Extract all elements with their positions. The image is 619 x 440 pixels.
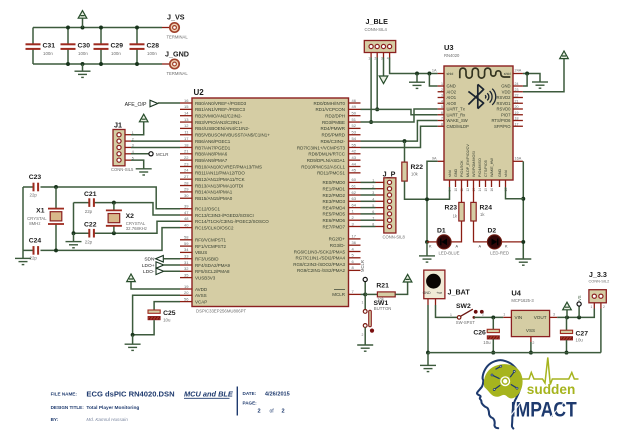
ground U3 24A: [532, 82, 548, 88]
wire bus to ground: [22, 250, 24, 258]
svg-text:1: 1: [591, 305, 593, 309]
U2 pin 2 RE6: [349, 219, 361, 221]
connector J_3.3 body: [589, 290, 606, 303]
svg-text:15: 15: [484, 188, 488, 192]
U2 pin 59 RF1: [180, 245, 192, 247]
svg-text:17: 17: [352, 234, 357, 239]
U2 pin 19 AVDD: [180, 288, 192, 290]
svg-text:27: 27: [184, 174, 189, 179]
U2 pin 62 RE2: [349, 194, 361, 196]
U2 pin 30 RB15: [180, 197, 192, 199]
J_BLE pin 2: [375, 44, 379, 48]
svg-text:U2: U2: [194, 88, 205, 97]
svg-text:43: 43: [352, 155, 357, 160]
junction: [426, 351, 430, 355]
U3 pin 3 AIO1: [438, 97, 444, 99]
svg-text:46: 46: [352, 98, 357, 103]
logo sudden IMPACT: [477, 358, 579, 429]
svg-text:18: 18: [184, 142, 189, 147]
U2 pin 32 RF5: [180, 270, 192, 272]
svg-text:RE6/PMD6: RE6/PMD6: [322, 218, 345, 223]
svg-text:VOUT: VOUT: [534, 315, 547, 320]
svg-text:33: 33: [184, 254, 189, 259]
junction: [375, 107, 379, 111]
svg-text:RN4020: RN4020: [444, 53, 460, 58]
wire J_3.3 pin2 down: [600, 309, 602, 353]
U2 pin 42 RD8: [349, 153, 361, 155]
junction: [66, 26, 70, 30]
svg-text:RC14/T1CK/C3IN1-/PGEC2/SOSCO: RC14/T1CK/C3IN1-/PGEC2/SOSCO: [195, 219, 269, 224]
svg-text:22p: 22p: [85, 209, 93, 214]
power flag +V top-left: [78, 11, 87, 19]
connector J_P body: [384, 178, 396, 233]
junction: [415, 72, 419, 76]
U3 pin 2 AIO2: [438, 91, 444, 93]
U3 pin 17 SFP/PIO: [513, 125, 523, 127]
svg-text:RF4/SDA2/PMA9: RF4/SDA2/PMA9: [195, 263, 231, 268]
svg-text:1: 1: [450, 313, 452, 317]
J_P pin 1: [387, 180, 391, 184]
svg-text:23: 23: [184, 161, 189, 166]
svg-text:C25: C25: [163, 310, 176, 317]
svg-text:61: 61: [352, 184, 357, 189]
junction: [521, 197, 525, 201]
svg-text:100n: 100n: [147, 51, 157, 56]
U2 pin 50 RD2: [349, 115, 361, 117]
wire X1 bottom rail: [23, 228, 180, 251]
svg-text:13: 13: [184, 117, 189, 122]
J_P pin 3: [387, 193, 391, 197]
svg-text:C21: C21: [84, 191, 97, 198]
U2 pin 55 RD7: [349, 146, 361, 148]
svg-text:100n: 100n: [111, 51, 121, 56]
U4 pin 1 VIN: [503, 316, 511, 318]
svg-text:RG3/D-: RG3/D-: [330, 243, 346, 248]
svg-text:PIO4/MISO: PIO4/MISO: [478, 158, 482, 177]
resistor R21: [377, 292, 395, 297]
svg-text:RB9/AN9/PMA7: RB9/AN9/PMA7: [195, 158, 228, 163]
svg-text:MCU and BLE: MCU and BLE: [184, 389, 234, 398]
svg-text:19: 19: [184, 284, 189, 289]
svg-text:24: 24: [184, 168, 189, 173]
U2 pin 31 RF4: [180, 264, 192, 266]
svg-text:10: 10: [454, 188, 458, 192]
svg-text:12: 12: [466, 188, 470, 192]
U2 pin 35 VUSB3V3: [180, 277, 192, 279]
junction: [72, 231, 76, 235]
title block: [51, 387, 290, 423]
U2 pin 45 RD11: [349, 172, 361, 174]
U2 pin 44 RD10: [349, 166, 361, 168]
U2 pin 27 RB12: [180, 178, 192, 180]
svg-text:RE4/PMD4: RE4/PMD4: [322, 205, 345, 210]
svg-text:VSS: VSS: [526, 328, 535, 333]
svg-text:C26: C26: [473, 330, 486, 337]
junction: [54, 185, 58, 189]
wire to U3 GND pin1: [429, 74, 437, 87]
capacitor C21: [89, 198, 94, 207]
svg-text:C24: C24: [29, 238, 42, 245]
J_3.3 pin 2: [599, 294, 603, 298]
svg-text:RB6/AN6/PGEC1: RB6/AN6/PGEC1: [195, 139, 231, 144]
U2 pin 28 RB13: [180, 185, 192, 187]
svg-text:LDO-: LDO-: [143, 269, 155, 275]
svg-text:9A: 9A: [432, 157, 437, 161]
U2 pin 17 RB6: [180, 140, 192, 142]
svg-text:30: 30: [184, 193, 189, 198]
connector J_BAT body: [424, 270, 445, 299]
J_P pin 8: [387, 224, 391, 228]
svg-text:48: 48: [184, 216, 189, 221]
ground D1: [419, 256, 435, 262]
svg-text:10u: 10u: [483, 340, 491, 345]
svg-text:2: 2: [532, 341, 534, 345]
U3 pin 16A side: [513, 160, 523, 162]
svg-text:19: 19: [515, 111, 519, 115]
svg-text:VIN: VIN: [515, 315, 523, 320]
svg-text:IMPACT: IMPACT: [511, 397, 577, 421]
svg-text:GND: GND: [423, 291, 431, 295]
wire C26 top: [492, 317, 494, 329]
U2 pin 16 RB0: [180, 102, 192, 104]
svg-text:RB12/AN12/PMA11/TCK: RB12/AN12/PMA11/TCK: [195, 177, 245, 182]
svg-text:GND: GND: [498, 168, 502, 177]
U2 pin 33 RF3: [180, 258, 192, 260]
U3 pin 21 RSVD1: [513, 102, 523, 104]
terminal J_GND: [170, 59, 179, 68]
svg-text:20: 20: [184, 290, 189, 295]
wire RE4 to J_P: [361, 207, 376, 209]
svg-text:2: 2: [603, 305, 605, 309]
svg-text:CMD/MLDP: CMD/MLDP: [447, 124, 470, 129]
svg-text:D1: D1: [437, 227, 446, 234]
svg-text:36: 36: [352, 240, 357, 245]
wire top rail VS: [33, 27, 162, 29]
svg-text:J_P: J_P: [383, 169, 396, 178]
svg-text:2: 2: [362, 333, 364, 337]
U3 pin 16 GND: [499, 180, 501, 187]
wire 24A to ground: [523, 74, 540, 83]
capacitor C30: [61, 44, 76, 49]
svg-text:LED-BLUE: LED-BLUE: [438, 251, 459, 256]
capacitor C25: [148, 310, 160, 313]
svg-text:FILE NAME:: FILE NAME:: [51, 391, 78, 396]
resistor R23: [461, 187, 463, 202]
svg-text:100n: 100n: [43, 51, 53, 56]
svg-text:14: 14: [478, 188, 482, 192]
svg-text:C23: C23: [29, 174, 42, 181]
U2 pin 64 RE4: [349, 207, 361, 209]
svg-text:C28: C28: [147, 43, 160, 50]
junction: [525, 72, 529, 76]
capacitor C31: [26, 44, 41, 49]
U2 pin 53 RD5: [349, 134, 361, 136]
capacitor C26: [487, 329, 499, 332]
wire J1 pin5 to ground: [131, 160, 144, 169]
U3 pin 12 MLDP_EV/PIO2/CV: [467, 180, 469, 187]
wire power stem: [566, 310, 568, 318]
wire left bus: [22, 187, 24, 250]
svg-text:VDD: VDD: [502, 89, 511, 94]
svg-text:sudden: sudden: [527, 382, 576, 397]
capacitor C23: [34, 183, 39, 192]
power flag VDD: [560, 51, 569, 59]
U2 pin 46 RD0: [349, 102, 361, 104]
U4 pin 3 VOUT: [550, 316, 558, 318]
svg-text:24: 24: [515, 82, 519, 86]
wire RD1 to UART_Rx: [361, 109, 438, 114]
svg-text:54: 54: [352, 136, 357, 141]
svg-text:6: 6: [441, 111, 443, 115]
U3 bluetooth logo: [468, 84, 495, 108]
svg-text:60: 60: [352, 177, 357, 182]
wire D2 cathode: [502, 241, 524, 243]
wire C27 bottom: [566, 340, 568, 353]
svg-text:VCAP: VCAP: [195, 299, 207, 304]
svg-text:C30: C30: [78, 43, 91, 50]
svg-text:RB5/VBUSON/VBUSST/AN5/C1IN1+: RB5/VBUSON/VBUSST/AN5/C1IN1+: [195, 133, 270, 138]
svg-text:CONN-SIL5: CONN-SIL5: [111, 167, 134, 172]
ground main rail: [420, 365, 436, 371]
svg-text:RD2/DPH: RD2/DPH: [325, 114, 345, 119]
wire AVDD to power: [131, 281, 180, 289]
wire pin16 GND to 16A chain: [506, 187, 524, 199]
wire MCLR up: [364, 282, 366, 295]
U3 pin 8 CMD/MLDP: [438, 125, 444, 127]
svg-text:17: 17: [184, 136, 189, 141]
svg-text:AIO0: AIO0: [447, 101, 457, 106]
svg-text:44: 44: [352, 161, 357, 166]
svg-text:64: 64: [352, 202, 357, 207]
svg-text:RB15/AN15/PMA0: RB15/AN15/PMA0: [195, 196, 233, 201]
svg-text:BUTTON: BUTTON: [374, 306, 392, 311]
svg-text:MCLR: MCLR: [156, 152, 168, 157]
svg-text:J_BLE: J_BLE: [366, 17, 389, 26]
wire R22 top: [404, 141, 406, 162]
svg-text:17: 17: [515, 122, 519, 126]
U3 pin 9 shld: [449, 180, 451, 187]
resistor R24: [473, 187, 475, 202]
J_P pin 5: [387, 206, 391, 210]
capacitor C29: [94, 44, 109, 49]
svg-text:10u: 10u: [163, 318, 171, 323]
svg-text:RD7/C3IN1+/VCMPST3: RD7/C3IN1+/VCMPST3: [297, 145, 346, 150]
svg-text:AIO2: AIO2: [447, 89, 457, 94]
svg-text:RTS/PIO6: RTS/PIO6: [491, 118, 511, 123]
wire C31 leads: [32, 28, 34, 45]
svg-text:28: 28: [184, 180, 189, 185]
junction: [99, 26, 103, 30]
svg-text:shld: shld: [447, 72, 454, 76]
svg-text:WAKE_HW: WAKE_HW: [490, 158, 494, 177]
svg-text:50: 50: [352, 111, 357, 116]
U2 pin 14 RB2: [180, 115, 192, 117]
U3 pin 23 VDD: [513, 91, 523, 93]
junction: [565, 351, 569, 355]
connector J_BLE body: [364, 41, 395, 53]
svg-text:29: 29: [184, 187, 189, 192]
svg-text:40: 40: [184, 222, 189, 227]
svg-text:CRYSTAL: CRYSTAL: [27, 216, 47, 221]
wire RD7 to CMD/MLDP: [361, 126, 438, 147]
junction: [425, 197, 429, 201]
svg-text:21: 21: [184, 149, 189, 154]
capacitor C27: [560, 330, 572, 333]
resistor R23: [459, 202, 464, 221]
ground C25: [125, 344, 141, 350]
crystal X2: [106, 210, 122, 225]
U2 pin 29 RB14: [180, 191, 192, 193]
wire RE3 to J_P: [361, 200, 376, 202]
U2 pin 56 VCAP: [180, 301, 192, 303]
wire power stem: [82, 18, 84, 27]
capacitor C28: [130, 44, 145, 49]
U2 pin 17 RG2: [349, 238, 361, 240]
svg-text:RC12/OSC1: RC12/OSC1: [195, 207, 221, 212]
U3 pin 18 RTS/PIO6: [513, 120, 523, 122]
power flag J1: [139, 114, 148, 122]
U3 pin 20 RSVD0: [513, 108, 523, 110]
U3 pin 24A shld: [513, 73, 523, 75]
U2 pin 22 RB9: [180, 159, 192, 161]
svg-text:1: 1: [503, 313, 505, 317]
svg-text:20: 20: [515, 105, 519, 109]
svg-text:1: 1: [368, 57, 370, 61]
U2 pin 18 RB7: [180, 146, 192, 148]
svg-text:32: 32: [184, 266, 189, 271]
wire J_BAT GND to rail: [427, 305, 429, 353]
svg-text:DATE:: DATE:: [243, 391, 257, 396]
svg-text:16: 16: [490, 188, 494, 192]
svg-text:42: 42: [352, 149, 357, 154]
U2 pin 24 RB11: [180, 172, 192, 174]
svg-text:MCLR: MCLR: [360, 260, 365, 272]
svg-text:SW-SPST: SW-SPST: [456, 320, 475, 325]
svg-text:22p: 22p: [30, 192, 38, 197]
svg-text:51: 51: [352, 117, 357, 122]
regulator U4 body: [511, 310, 549, 336]
svg-text:23: 23: [515, 88, 519, 92]
svg-text:RB13/AN13/PMA10/TDI: RB13/AN13/PMA10/TDI: [195, 183, 243, 188]
wire C26 bottom: [492, 339, 494, 352]
U3 pin 24 GND: [513, 85, 523, 87]
U2 pin 60 RE0: [349, 181, 361, 183]
svg-text:RB2/VMIO/AN2/C2IN2-: RB2/VMIO/AN2/C2IN2-: [195, 114, 243, 119]
U3 pin 1A shld: [438, 73, 444, 75]
LED D2 red: [487, 235, 501, 249]
svg-text:1A: 1A: [432, 69, 437, 73]
wire ground stem: [427, 353, 429, 366]
wire C25 bottom: [133, 320, 155, 335]
U2 pin 39 RC12: [180, 208, 192, 210]
svg-text:RD6/C3IN2-: RD6/C3IN2-: [320, 139, 345, 144]
J1 pin 2: [117, 139, 121, 143]
U3 pin 9A shld: [438, 160, 444, 162]
svg-text:RE7/PMD7: RE7/PMD7: [322, 224, 345, 229]
wire to J_GND: [162, 63, 170, 65]
svg-text:RD4/PMWR: RD4/PMWR: [321, 126, 346, 131]
microcontroller U2 body: [192, 98, 349, 307]
U3 pin 22 RSVD2: [513, 97, 523, 99]
svg-text:TERMINAL: TERMINAL: [167, 35, 189, 40]
wire RE7 to J_P: [361, 226, 376, 228]
svg-text:14: 14: [184, 111, 189, 116]
LED D1 blue: [437, 235, 451, 249]
J1 pin 1: [117, 133, 121, 137]
junction: [54, 248, 58, 252]
J_P pin 4: [387, 199, 391, 203]
U2 pin 58 RF0: [180, 239, 192, 241]
switch SW1: [364, 294, 366, 309]
junction: [363, 292, 367, 296]
U2 pin 40 RC15: [180, 227, 192, 229]
wire to ground: [132, 335, 134, 344]
junction: [112, 201, 116, 205]
svg-text:10u: 10u: [576, 338, 584, 343]
U3 pin 10 GND: [455, 180, 457, 187]
svg-text:Md. Kamrul Hussain: Md. Kamrul Hussain: [86, 417, 128, 422]
svg-text:RG8/C2IN3-/SDO2/PMA3: RG8/C2IN3-/SDO2/PMA3: [293, 262, 345, 267]
svg-text:18: 18: [515, 117, 519, 121]
wire C28 leads: [136, 28, 138, 45]
svg-text:RD9/DPLN/ASDA1: RD9/DPLN/ASDA1: [307, 158, 346, 163]
wire C27 top: [566, 317, 568, 330]
ground U3 1A: [409, 82, 425, 88]
svg-text:RSVD1: RSVD1: [497, 101, 512, 106]
J_BLE pin 3: [381, 44, 385, 48]
ground X2 bus: [66, 242, 82, 248]
svg-text:RB8/AN8/PMA6: RB8/AN8/PMA6: [195, 152, 228, 157]
ground flag J_BLE: [379, 76, 388, 84]
svg-text:1: 1: [362, 301, 364, 305]
svg-text:4: 4: [441, 99, 443, 103]
U3 antenna meander: [460, 68, 511, 78]
svg-text:RG7/C1IN1-/SDI2/PMA4: RG7/C1IN1-/SDI2/PMA4: [295, 256, 345, 261]
svg-text:100n: 100n: [78, 51, 88, 56]
U4 pin 2 VSS: [530, 337, 532, 342]
svg-text:BY:: BY:: [51, 417, 59, 422]
terminal J_VS: [170, 23, 179, 32]
junction: [81, 26, 85, 30]
svg-text:C22: C22: [84, 221, 97, 228]
switch SW2: [457, 316, 461, 320]
svg-text:R24: R24: [480, 204, 493, 211]
svg-text:GND: GND: [447, 84, 456, 89]
U3 pin 7 WAKE_SW: [438, 120, 444, 122]
U2 pin 20 AVSS: [180, 294, 192, 296]
svg-text:AVDD: AVDD: [195, 287, 208, 292]
wire J_BLE pin1 down: [370, 58, 372, 123]
U2 pin 21 RB8: [180, 153, 192, 155]
wire R24 to D2 anode: [474, 221, 488, 242]
U2 pin 48 RC14: [180, 220, 192, 222]
U2 pin 54 RD6: [349, 140, 361, 142]
U2 pin 13 RB3: [180, 121, 192, 123]
U2 pin 36 RG3: [349, 244, 361, 246]
svg-text:SW2: SW2: [456, 303, 471, 310]
U2 pin 52 RD4: [349, 127, 361, 129]
svg-text:RD10/PMCS2/ASCL1: RD10/PMCS2/ASCL1: [301, 164, 345, 169]
J_P pin 7: [387, 218, 391, 222]
wire LDO+: [164, 264, 180, 266]
svg-text:RE2/PMD2: RE2/PMD2: [322, 193, 345, 198]
svg-text:CONN-SIL8: CONN-SIL8: [383, 235, 406, 240]
wire C22 row: [74, 221, 181, 233]
svg-text:U4: U4: [511, 288, 521, 297]
wire C21 row: [74, 203, 181, 215]
svg-text:R23: R23: [445, 204, 458, 211]
U2 pin 8 RG9: [349, 269, 361, 271]
